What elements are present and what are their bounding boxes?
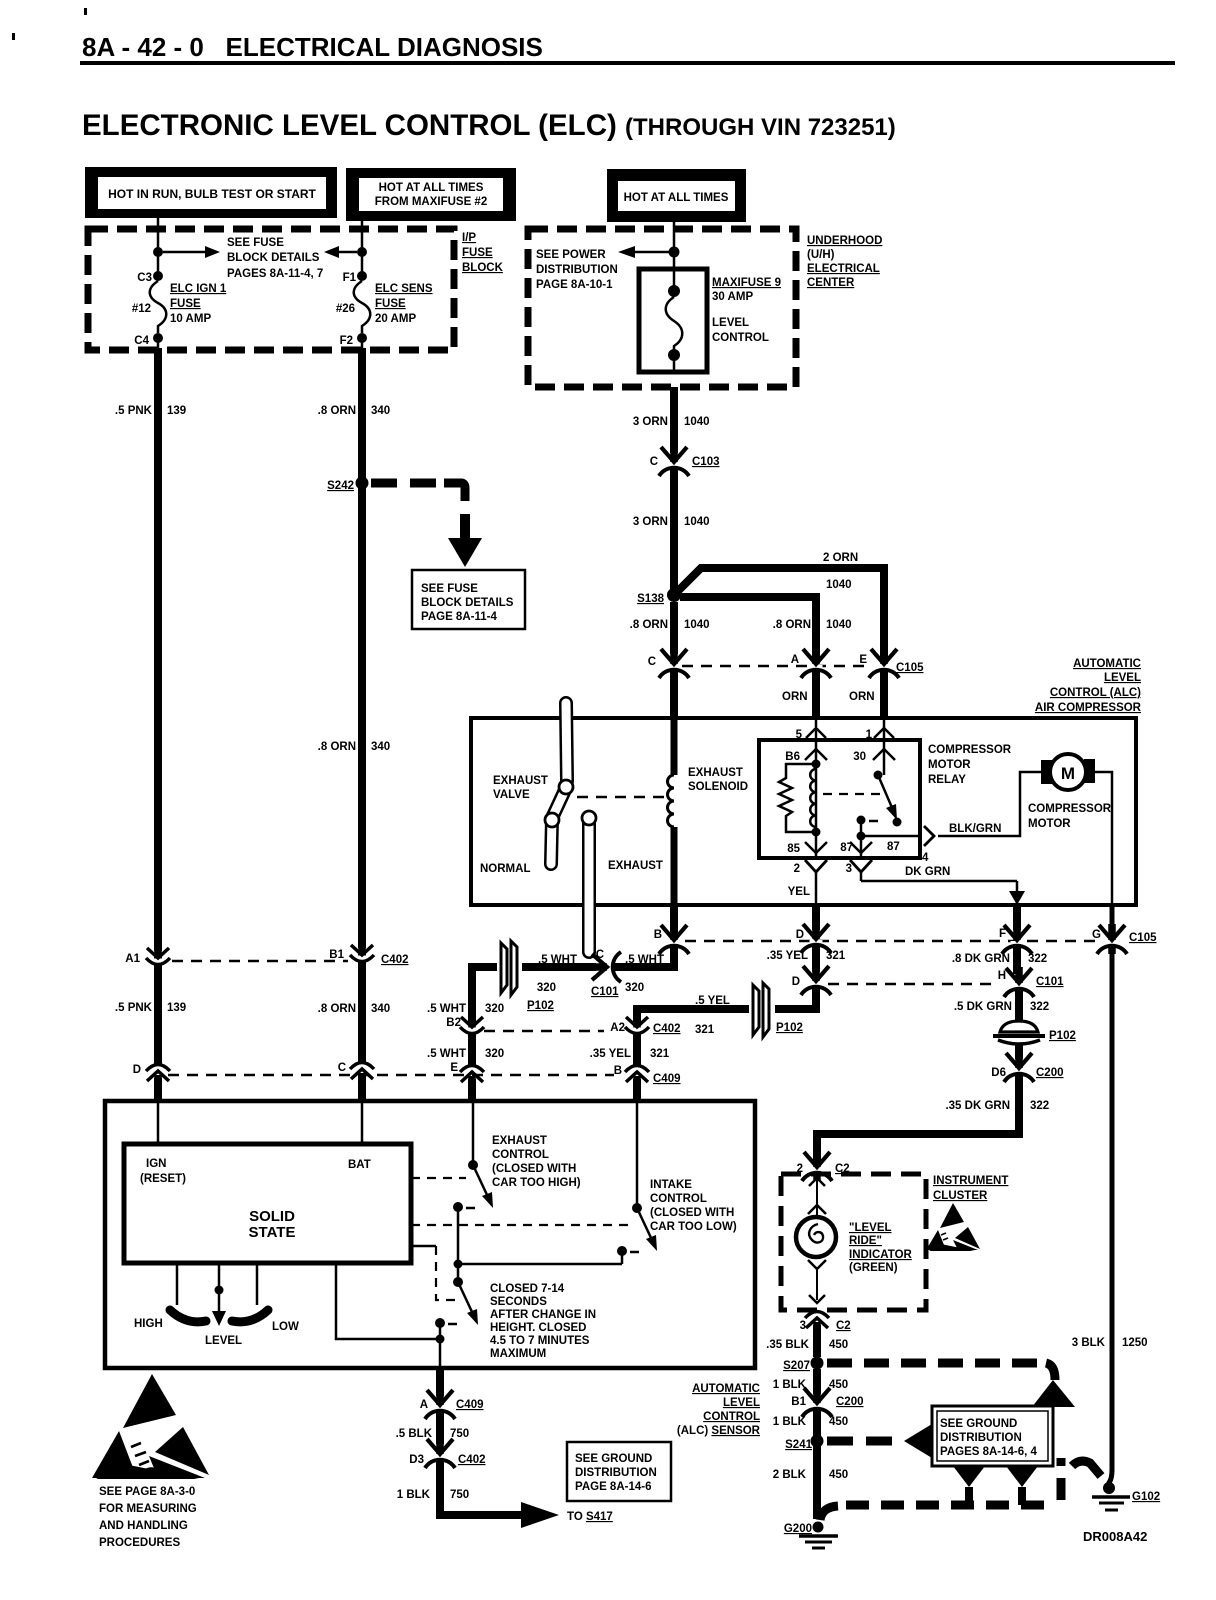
svg-text:SEE GROUND: SEE GROUND xyxy=(575,1453,652,1465)
svg-text:DISTRIBUTION: DISTRIBUTION xyxy=(940,1432,1022,1444)
svg-text:A2: A2 xyxy=(610,1022,625,1034)
grommet P102 saucer (DK GRN) xyxy=(993,1021,1076,1044)
svg-text:D6: D6 xyxy=(991,1067,1006,1079)
svg-text:C101: C101 xyxy=(591,986,619,998)
I/P fuse block dashed box xyxy=(88,229,454,350)
fuse C3 terminal xyxy=(137,271,163,284)
intake control label xyxy=(650,1179,737,1233)
splice S241 xyxy=(785,1435,823,1452)
svg-text:1040: 1040 xyxy=(684,516,710,528)
svg-text:BAT: BAT xyxy=(348,1159,371,1171)
ESD note xyxy=(99,1486,197,1549)
svg-text:S207: S207 xyxy=(783,1360,810,1372)
svg-text:FUSE: FUSE xyxy=(170,298,201,310)
svg-text:139: 139 xyxy=(167,1002,186,1014)
svg-text:MAXIFUSE 9: MAXIFUSE 9 xyxy=(712,277,781,289)
wire 3 ORN 1040 upper xyxy=(633,387,710,453)
DK GRN wire F to H xyxy=(952,944,1047,974)
svg-text:.8 ORN: .8 ORN xyxy=(318,1003,356,1015)
svg-text:2: 2 xyxy=(794,863,800,875)
svg-text:C402: C402 xyxy=(653,1023,681,1035)
svg-text:#12: #12 xyxy=(132,303,151,315)
exhaust control label xyxy=(492,1135,581,1189)
svg-text:320: 320 xyxy=(625,982,644,994)
connector 2 C2 xyxy=(797,1151,850,1181)
arrows out of ground box bottom xyxy=(953,1466,1038,1505)
fuse element #12 xyxy=(132,281,166,333)
maxifuse element xyxy=(666,269,683,372)
grommet P102 (YEL) xyxy=(753,983,803,1037)
svg-text:.5 PNK: .5 PNK xyxy=(115,1002,153,1014)
svg-text:MOTOR: MOTOR xyxy=(928,759,971,771)
DK GRN wire H to P102 xyxy=(954,988,1049,1021)
maxifuse feed wire xyxy=(618,222,680,269)
svg-text:1250: 1250 xyxy=(1122,1337,1148,1349)
svg-text:C200: C200 xyxy=(1036,1067,1064,1079)
cluster ESD symbol xyxy=(926,1203,980,1251)
fuse C4 terminal xyxy=(134,333,163,348)
svg-text:ELECTRONIC LEVEL CONTROL (ELC): ELECTRONIC LEVEL CONTROL (ELC) (THROUGH … xyxy=(82,109,896,142)
DK GRN wire to F xyxy=(861,866,1025,905)
svg-text:AUTOMATIC: AUTOMATIC xyxy=(692,1383,760,1395)
svg-text:30: 30 xyxy=(853,751,866,763)
dashed C101 row xyxy=(828,983,996,986)
dashed C402 row left xyxy=(172,960,348,963)
wire 3 ORN 1040 lower xyxy=(633,468,710,589)
svg-text:CLUSTER: CLUSTER xyxy=(933,1190,988,1202)
connector H C101 xyxy=(998,967,1064,997)
wires into sensor box top xyxy=(158,1076,637,1101)
intake control switch xyxy=(411,1101,657,1264)
svg-text:E: E xyxy=(859,654,867,666)
svg-text:.8 ORN: .8 ORN xyxy=(773,619,811,631)
svg-text:PAGES 8A-14-6, 4: PAGES 8A-14-6, 4 xyxy=(940,1446,1038,1458)
svg-text:3 ORN: 3 ORN xyxy=(633,416,668,428)
svg-text:G102: G102 xyxy=(1132,1491,1160,1503)
svg-text:(CLOSED WITH: (CLOSED WITH xyxy=(650,1207,734,1219)
svg-text:HOT IN RUN, BULB TEST OR START: HOT IN RUN, BULB TEST OR START xyxy=(108,187,316,201)
timer switch xyxy=(411,1207,622,1328)
see fuse block details box xyxy=(412,570,525,629)
svg-text:.8 DK GRN: .8 DK GRN xyxy=(952,953,1010,965)
svg-text:DISTRIBUTION: DISTRIBUTION xyxy=(536,264,618,276)
svg-text:NORMAL: NORMAL xyxy=(480,863,530,875)
compressor motor label xyxy=(1028,803,1112,830)
svg-text:.5 WHT: .5 WHT xyxy=(427,1048,466,1060)
svg-text:PAGE 8A-14-6: PAGE 8A-14-6 xyxy=(575,1481,651,1493)
ALC sensor label xyxy=(677,1383,761,1437)
ground G200 xyxy=(784,1522,838,1549)
svg-text:.5 DK GRN: .5 DK GRN xyxy=(954,1001,1012,1013)
svg-text:.5 WHT: .5 WHT xyxy=(427,1003,466,1015)
svg-text:3 BLK: 3 BLK xyxy=(1072,1337,1106,1349)
relay terminal 85 xyxy=(787,832,827,858)
splice S138 xyxy=(637,588,681,605)
svg-text:LEVEL: LEVEL xyxy=(1104,672,1141,684)
svg-text:I/P: I/P xyxy=(462,232,476,244)
YEL wire A2 to B xyxy=(590,1033,670,1068)
svg-text:322: 322 xyxy=(1030,1001,1049,1013)
svg-text:G200: G200 xyxy=(784,1523,812,1535)
svg-text:10 AMP: 10 AMP xyxy=(170,313,211,325)
instrument cluster dashed box xyxy=(781,1174,926,1310)
svg-text:VALVE: VALVE xyxy=(493,789,530,801)
YEL wire D to P102 xyxy=(695,986,816,1009)
svg-text:YEL: YEL xyxy=(788,886,810,898)
svg-text:.35 DK GRN: .35 DK GRN xyxy=(945,1100,1010,1112)
svg-text:3: 3 xyxy=(800,1320,806,1332)
svg-text:321: 321 xyxy=(650,1048,670,1060)
svg-text:P102: P102 xyxy=(527,1000,554,1012)
arrow into ground box top xyxy=(1032,1380,1075,1407)
svg-text:450: 450 xyxy=(829,1339,848,1351)
relay switch xyxy=(823,771,920,841)
svg-text:RIDE": RIDE" xyxy=(849,1235,882,1247)
svg-text:PAGES 8A-11-4, 7: PAGES 8A-11-4, 7 xyxy=(227,268,323,280)
WHT wire P102 to B2 xyxy=(427,967,504,1022)
svg-text:2 BLK: 2 BLK xyxy=(773,1469,807,1481)
ALC air compressor label xyxy=(1035,658,1142,714)
arrow into ground box left xyxy=(904,1424,932,1458)
svg-text:F1: F1 xyxy=(343,272,357,284)
level control label xyxy=(712,317,769,344)
svg-text:CONTROL: CONTROL xyxy=(712,332,769,344)
svg-text:C2: C2 xyxy=(836,1320,851,1332)
wire ORN stubs into compressor xyxy=(674,670,884,718)
svg-text:C409: C409 xyxy=(456,1399,484,1411)
svg-text:.5 BLK: .5 BLK xyxy=(396,1428,433,1440)
svg-text:CLOSED 7-14: CLOSED 7-14 xyxy=(490,1283,565,1295)
svg-text:(RESET): (RESET) xyxy=(140,1173,186,1185)
connector A C409 xyxy=(420,1389,484,1419)
ALC air compressor box xyxy=(471,718,1136,905)
svg-text:450: 450 xyxy=(829,1469,848,1481)
level gauge xyxy=(134,1263,299,1347)
connector row C105 top: C A E xyxy=(648,648,924,678)
ESD warning symbol bottom left xyxy=(92,1374,209,1479)
svg-text:C: C xyxy=(650,456,658,468)
svg-text:85: 85 xyxy=(787,843,800,855)
svg-text:M: M xyxy=(1061,764,1075,783)
svg-text:AIR COMPRESSOR: AIR COMPRESSOR xyxy=(1035,702,1142,714)
connector B2 C402 xyxy=(446,1015,484,1040)
svg-text:(CLOSED WITH: (CLOSED WITH xyxy=(492,1163,576,1175)
relay pin 2 xyxy=(788,860,827,905)
svg-text:LEVEL: LEVEL xyxy=(723,1397,760,1409)
WHT wire from B to C101 xyxy=(614,944,674,967)
exhaust valve label xyxy=(493,775,548,801)
svg-text:.35 YEL: .35 YEL xyxy=(767,950,808,962)
svg-text:P102: P102 xyxy=(1049,1030,1076,1042)
svg-text:HIGH: HIGH xyxy=(134,1318,163,1330)
I/P fuse block label xyxy=(462,232,504,274)
ELC IGN 1 fuse label xyxy=(170,283,227,325)
timer label xyxy=(490,1283,596,1360)
svg-text:BLOCK DETAILS: BLOCK DETAILS xyxy=(421,597,514,609)
ELC SENS fuse label xyxy=(375,283,433,325)
svg-text:SEE FUSE: SEE FUSE xyxy=(421,583,478,595)
wire 2 BLK 450 xyxy=(773,1446,848,1519)
svg-text:COMPRESSOR: COMPRESSOR xyxy=(928,744,1012,756)
svg-text:FUSE: FUSE xyxy=(462,247,493,259)
svg-text:ELECTRICAL: ELECTRICAL xyxy=(807,263,880,275)
svg-text:322: 322 xyxy=(1030,1100,1049,1112)
svg-text:C402: C402 xyxy=(381,954,409,966)
see power distribution note xyxy=(536,249,618,291)
svg-text:A: A xyxy=(791,654,799,666)
svg-text:"LEVEL: "LEVEL xyxy=(849,1222,892,1234)
arrow to fuse note xyxy=(448,514,482,567)
svg-text:P102: P102 xyxy=(776,1022,803,1034)
svg-text:HOT AT ALL TIMES: HOT AT ALL TIMES xyxy=(624,192,729,204)
connector B1 C402 xyxy=(329,943,408,968)
svg-text:BLK/GRN: BLK/GRN xyxy=(949,823,1001,835)
connector A1 C402 xyxy=(125,946,170,971)
underhood electrical center dashed box xyxy=(528,229,796,387)
svg-text:D: D xyxy=(792,976,800,988)
svg-text:CENTER: CENTER xyxy=(807,277,855,289)
svg-text:S242: S242 xyxy=(327,480,354,492)
svg-text:BLOCK DETAILS: BLOCK DETAILS xyxy=(227,252,320,264)
valve-solenoid dashed link xyxy=(577,796,666,799)
YEL wire D to C101 D xyxy=(767,944,846,972)
svg-text:1 BLK: 1 BLK xyxy=(773,1416,807,1428)
wire .35 BLK 450 xyxy=(766,1325,848,1357)
connector row C105 bottom: B D F G xyxy=(654,905,1157,954)
sensor output wire xyxy=(336,1263,445,1368)
connector D3 C402 xyxy=(409,1438,485,1468)
svg-text:DISTRIBUTION: DISTRIBUTION xyxy=(575,1467,657,1479)
svg-text:SEE POWER: SEE POWER xyxy=(536,249,606,261)
relay coil xyxy=(779,760,821,837)
svg-text:D: D xyxy=(133,1064,141,1076)
connector row C409: D C E B xyxy=(133,952,681,1086)
svg-text:B: B xyxy=(614,1065,622,1077)
svg-text:CONTROL: CONTROL xyxy=(650,1193,707,1205)
wire .5 BLK 750 xyxy=(396,1410,470,1444)
svg-text:(GREEN): (GREEN) xyxy=(849,1262,898,1274)
splice S242 xyxy=(327,477,368,493)
svg-text:C3: C3 xyxy=(137,272,152,284)
svg-text:INTAKE: INTAKE xyxy=(650,1179,692,1191)
DK GRN wire P102 to D6 xyxy=(1015,1044,1023,1059)
svg-text:LOW: LOW xyxy=(272,1321,299,1333)
svg-text:F: F xyxy=(999,928,1006,940)
inline connector C C101 xyxy=(591,949,664,998)
svg-text:S241: S241 xyxy=(785,1439,812,1451)
hot in run box xyxy=(85,167,337,218)
svg-text:139: 139 xyxy=(167,405,186,417)
exhaust control switch xyxy=(411,1101,493,1212)
svg-text:.5 WHT: .5 WHT xyxy=(625,954,664,966)
svg-text:C105: C105 xyxy=(896,662,924,674)
svg-text:30 AMP: 30 AMP xyxy=(712,291,753,303)
svg-text:EXHAUST: EXHAUST xyxy=(608,860,663,872)
svg-text:DR008A42: DR008A42 xyxy=(1083,1529,1147,1544)
fuse element #26 xyxy=(336,281,370,333)
svg-text:AUTOMATIC: AUTOMATIC xyxy=(1073,658,1141,670)
solid state box xyxy=(124,1144,411,1263)
svg-text:1 BLK: 1 BLK xyxy=(397,1489,431,1501)
svg-text:750: 750 xyxy=(450,1428,469,1440)
svg-text:TO S417: TO S417 xyxy=(567,1511,613,1523)
level ride label xyxy=(849,1222,913,1274)
svg-text:B: B xyxy=(654,929,662,941)
connector 3 C2 xyxy=(800,1312,851,1333)
svg-text:.35 BLK: .35 BLK xyxy=(766,1339,810,1351)
svg-text:S138: S138 xyxy=(637,593,664,605)
svg-text:A1: A1 xyxy=(125,953,140,965)
svg-text:.5 WHT: .5 WHT xyxy=(538,954,577,966)
connector C C103 xyxy=(650,446,720,476)
svg-text:340: 340 xyxy=(371,741,390,753)
svg-text:.8 ORN: .8 ORN xyxy=(318,405,356,417)
svg-text:HEIGHT. CLOSED: HEIGHT. CLOSED xyxy=(490,1322,586,1334)
svg-text:H: H xyxy=(998,970,1006,982)
svg-text:4: 4 xyxy=(922,852,929,864)
svg-text:320: 320 xyxy=(485,1048,504,1060)
svg-text:HOT AT ALL TIMES: HOT AT ALL TIMES xyxy=(379,182,484,194)
wire .5 PNK 139 (left vertical) xyxy=(115,348,186,951)
svg-text:CAR TOO HIGH): CAR TOO HIGH) xyxy=(492,1177,581,1189)
svg-text:F2: F2 xyxy=(340,335,353,347)
svg-text:ORN: ORN xyxy=(782,691,808,703)
svg-text:750: 750 xyxy=(450,1489,469,1501)
exhaust valve rod lower xyxy=(582,811,596,952)
svg-text:SECONDS: SECONDS xyxy=(490,1296,547,1308)
see fuse block details note xyxy=(227,237,323,280)
wire 1 BLK 750 to S417 xyxy=(397,1459,559,1528)
svg-text:20 AMP: 20 AMP xyxy=(375,313,416,325)
connector D C101 xyxy=(792,965,831,995)
svg-text:D3: D3 xyxy=(409,1454,424,1466)
svg-text:B6: B6 xyxy=(785,751,800,763)
WHT wire C101 to P102 xyxy=(522,954,596,994)
dashed C402 row xyxy=(484,1030,604,1033)
svg-text:LEVEL: LEVEL xyxy=(205,1335,242,1347)
svg-text:321: 321 xyxy=(695,1024,715,1036)
svg-text:3 ORN: 3 ORN xyxy=(633,516,668,528)
svg-text:.8 ORN: .8 ORN xyxy=(630,619,668,631)
svg-text:CONTROL (ALC): CONTROL (ALC) xyxy=(1050,687,1141,699)
DK GRN wire D6 to cluster xyxy=(817,1073,1049,1160)
WHT wire B2 to E xyxy=(427,1033,504,1068)
relay pin 4 xyxy=(922,826,934,864)
svg-text:C402: C402 xyxy=(458,1454,486,1466)
svg-text:SEE PAGE 8A-3-0: SEE PAGE 8A-3-0 xyxy=(99,1486,195,1498)
svg-text:SEE FUSE: SEE FUSE xyxy=(227,237,284,249)
wire ORN branch to A xyxy=(680,597,816,660)
wires into solid state xyxy=(158,1101,362,1144)
see ground distribution box right xyxy=(932,1406,1053,1466)
svg-text:1040: 1040 xyxy=(826,619,852,631)
svg-text:FUSE: FUSE xyxy=(375,298,406,310)
dashed branch S241 xyxy=(827,1437,900,1446)
svg-text:340: 340 xyxy=(371,1003,390,1015)
svg-text:DK GRN: DK GRN xyxy=(905,866,950,878)
wire labels PNK ORN second xyxy=(115,1002,390,1015)
wire .8 ORN 340 (second vertical) xyxy=(318,348,391,948)
hot at all times from maxifuse box xyxy=(346,168,516,221)
wire 1 BLK 450 lower xyxy=(773,1408,848,1436)
fuse ELC SENS branch xyxy=(324,221,367,276)
svg-text:321: 321 xyxy=(826,950,846,962)
svg-text:1040: 1040 xyxy=(684,619,710,631)
fuse F2 terminal xyxy=(340,333,367,348)
svg-text:EXHAUST: EXHAUST xyxy=(688,767,743,779)
svg-text:ELC IGN 1: ELC IGN 1 xyxy=(170,283,227,295)
relay terminal 87 left xyxy=(840,836,872,858)
svg-text:PAGE 8A-10-1: PAGE 8A-10-1 xyxy=(536,279,613,291)
svg-text:G: G xyxy=(1092,929,1101,941)
svg-text:C: C xyxy=(338,1062,346,1074)
svg-text:.5 PNK: .5 PNK xyxy=(115,405,153,417)
ALC sensor box xyxy=(105,1101,755,1368)
svg-text:ELC SENS: ELC SENS xyxy=(375,283,433,295)
exhaust valve lever xyxy=(545,780,573,864)
svg-text:SOLENOID: SOLENOID xyxy=(688,781,748,793)
relay terminal 30 xyxy=(853,740,895,775)
svg-text:FOR MEASURING: FOR MEASURING xyxy=(99,1503,197,1515)
dashed branch S207 xyxy=(827,1359,1046,1368)
connector A2 C402 xyxy=(610,1015,680,1040)
svg-text:STATE: STATE xyxy=(249,1224,296,1241)
svg-text:1040: 1040 xyxy=(826,579,852,591)
splice S207 xyxy=(783,1357,823,1373)
svg-text:322: 322 xyxy=(1028,953,1047,965)
svg-text:320: 320 xyxy=(485,1003,504,1015)
ground G102 xyxy=(1092,1482,1160,1510)
solid state labels xyxy=(140,1158,371,1241)
YEL wire P102 to A2 xyxy=(637,1009,749,1036)
svg-text:87: 87 xyxy=(840,842,853,854)
svg-text:C409: C409 xyxy=(653,1073,681,1085)
svg-text:.35 YEL: .35 YEL xyxy=(590,1048,631,1060)
wire 2 ORN 1040 branch xyxy=(676,552,884,660)
svg-text:PROCEDURES: PROCEDURES xyxy=(99,1537,180,1549)
dashed ground bus xyxy=(820,1506,838,1520)
svg-text:FROM MAXIFUSE #2: FROM MAXIFUSE #2 xyxy=(375,196,487,208)
svg-text:COMPRESSOR: COMPRESSOR xyxy=(1028,803,1112,815)
svg-text:4.5 TO 7 MINUTES: 4.5 TO 7 MINUTES xyxy=(490,1335,590,1347)
svg-text:C105: C105 xyxy=(1129,932,1157,944)
hot at all times box xyxy=(607,169,746,222)
wire .8 ORN 1040 center xyxy=(630,602,852,654)
instrument cluster label xyxy=(933,1175,1008,1202)
svg-text:(ALC) SENSOR: (ALC) SENSOR xyxy=(677,1425,761,1437)
svg-text:C: C xyxy=(596,949,604,961)
fuse ELC IGN 1 branch xyxy=(153,218,220,276)
page header xyxy=(12,8,1175,65)
wire 3 BLK 1250 xyxy=(1072,944,1148,1484)
svg-text:EXHAUST: EXHAUST xyxy=(492,1135,547,1147)
relay pin 5 xyxy=(796,718,826,741)
svg-text:3: 3 xyxy=(846,863,852,875)
BLK/GRN wire to motor xyxy=(938,772,1043,836)
svg-text:IGN: IGN xyxy=(146,1158,166,1170)
maxifuse label xyxy=(712,277,781,303)
maxifuse 9 box xyxy=(639,269,707,372)
grommet P102 (WHT) xyxy=(501,941,554,1012)
svg-text:(U/H): (U/H) xyxy=(807,249,835,261)
exhaust solenoid label xyxy=(688,767,748,793)
svg-text:450: 450 xyxy=(829,1416,848,1428)
svg-text:C101: C101 xyxy=(1036,976,1064,988)
svg-text:CONTROL: CONTROL xyxy=(703,1411,760,1423)
svg-text:A: A xyxy=(420,1399,428,1411)
svg-text:450: 450 xyxy=(829,1379,848,1391)
svg-text:UNDERHOOD: UNDERHOOD xyxy=(807,235,882,247)
